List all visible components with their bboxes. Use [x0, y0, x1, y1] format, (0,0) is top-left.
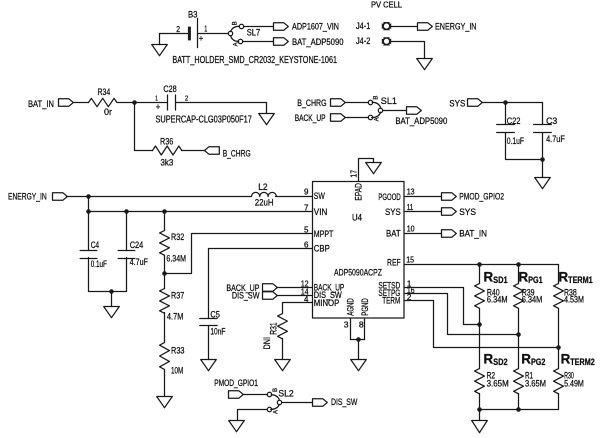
flag B_CHRG to SL1: [331, 99, 346, 106]
svg-text:SL7: SL7: [247, 27, 261, 38]
svg-text:2: 2: [176, 25, 180, 34]
svg-text:2: 2: [185, 96, 188, 103]
wire SETSD to divider: [405, 288, 480, 325]
svg-text:C28: C28: [163, 83, 176, 94]
wire MPPT pin to tap: [165, 234, 313, 274]
flag BAT_ADP5090 top: [274, 38, 289, 45]
resistor R40: [475, 284, 485, 309]
wire PGND stub: [364, 319, 366, 340]
svg-text:CBP: CBP: [314, 243, 330, 254]
svg-text:PGND: PGND: [359, 298, 370, 316]
wire RTERM1 top lead: [558, 265, 560, 284]
wire RTERM1 to RTERM2: [558, 309, 560, 369]
flag ADP1607_VIN: [274, 23, 289, 30]
wire SL2 throw A to ground: [238, 410, 267, 421]
svg-text:J4-2: J4-2: [356, 35, 370, 46]
svg-text:10: 10: [407, 224, 415, 233]
resistor R31: [278, 314, 288, 339]
svg-text:U4: U4: [352, 212, 362, 223]
wire BACK_UP flag to pin 12: [278, 287, 313, 289]
wire RPG2 bottom lead: [518, 394, 520, 410]
svg-text:R32: R32: [171, 231, 184, 242]
svg-text:7: 7: [304, 204, 309, 213]
wire VIN rail: [89, 211, 313, 213]
svg-text:SL1: SL1: [381, 95, 397, 106]
ground GND below divider: [472, 421, 488, 433]
svg-text:DIS_SW: DIS_SW: [232, 289, 260, 300]
switch SL1 throw A contact: [368, 115, 372, 119]
switch SL7 common contact: [228, 31, 232, 35]
svg-text:PMOD_GPIO1: PMOD_GPIO1: [214, 377, 258, 388]
ground GND below C4 C24: [104, 307, 120, 318]
svg-text:C22: C22: [507, 115, 521, 126]
op-amp U4 ADP5090ACPZ body: [313, 182, 405, 319]
svg-text:R31: R31: [267, 322, 278, 334]
flag BACK_UP to IC: [263, 284, 278, 291]
svg-text:3: 3: [344, 320, 349, 330]
svg-text:PV CELL: PV CELL: [371, 1, 403, 10]
svg-text:B_CHRG: B_CHRG: [297, 97, 326, 108]
ground GND at battery: [152, 45, 168, 56]
wire R33 to ground: [164, 370, 166, 397]
svg-text:L2: L2: [258, 181, 267, 192]
wire SL1 common to BAT_ADP5090 flag: [384, 110, 407, 112]
connector J4-1 pad: [382, 22, 392, 31]
switch SL2 common contact: [277, 400, 281, 404]
svg-text:MINOP: MINOP: [314, 297, 340, 308]
svg-text:B3: B3: [188, 9, 198, 19]
wire RSD1 to RSD2: [479, 309, 481, 369]
switch SL2 throw B contact: [267, 392, 271, 396]
resistor R1: [514, 369, 524, 394]
wire AGND stub: [350, 319, 352, 340]
wire battery negative to ground: [160, 33, 189, 35]
wire B_CHRG flag to SL1 throw B: [346, 102, 369, 104]
ground GND below SYS caps: [535, 178, 551, 189]
wire C24 top lead: [126, 212, 128, 251]
svg-text:REF: REF: [387, 256, 401, 267]
ground GND at J4-2: [417, 59, 433, 70]
ground GND below R31: [275, 360, 291, 371]
ground GND below C5: [201, 360, 217, 371]
wire REF rail: [405, 264, 559, 266]
wire RPG1 top lead: [518, 265, 520, 284]
wire L2 to SW pin: [276, 196, 313, 198]
battery B3 positive plate: [197, 18, 199, 47]
wire SL7 throw B to ADP1607_VIN flag: [244, 26, 274, 28]
svg-text:SL2: SL2: [278, 387, 293, 398]
flag BACK_UP to SL1: [331, 114, 346, 121]
wire R31 to ground: [282, 339, 284, 360]
node C4 C24 ground junction: [109, 289, 114, 294]
wire C3 top lead: [542, 103, 544, 125]
svg-text:3.65M: 3.65M: [487, 379, 509, 390]
svg-text:BAT_IN: BAT_IN: [459, 227, 487, 238]
wire RSD2 bottom lead: [479, 394, 481, 421]
svg-text:R36: R36: [160, 135, 173, 146]
node VIN at R32 column: [162, 209, 167, 214]
svg-text:0.1uF: 0.1uF: [507, 135, 524, 146]
node ENERGY_IN junction: [86, 194, 91, 199]
svg-text:17: 17: [350, 169, 359, 177]
resistor R37: [160, 289, 170, 314]
resistor R38: [554, 284, 564, 309]
svg-text:SYS: SYS: [459, 206, 476, 217]
svg-text:4.7uF: 4.7uF: [546, 133, 565, 144]
node VIN at C4 column: [86, 209, 91, 214]
svg-text:R37: R37: [171, 290, 184, 301]
svg-text:6: 6: [304, 240, 309, 249]
svg-text:5: 5: [304, 226, 309, 235]
svg-text:EPAD: EPAD: [353, 183, 364, 201]
flag B_CHRG output: [205, 147, 220, 154]
svg-text:BAT_ADP5090: BAT_ADP5090: [292, 36, 344, 47]
svg-text:A: A: [273, 410, 279, 414]
switch SL1 throw B contact: [368, 100, 372, 104]
svg-text:4.7uF: 4.7uF: [130, 256, 148, 267]
svg-text:11: 11: [407, 203, 414, 212]
wire RTERM2 bottom lead: [558, 394, 560, 410]
flag BAT_ADP5090 at SL1: [407, 107, 422, 114]
svg-text:10M: 10M: [171, 365, 183, 376]
svg-text:DIS_SW: DIS_SW: [331, 396, 358, 407]
svg-text:MPPT: MPPT: [314, 228, 334, 239]
wire C4 bottom lead: [89, 258, 127, 292]
wire C22 top lead: [505, 103, 507, 125]
svg-text:DNI: DNI: [261, 337, 272, 350]
capacitor C3 plates: [534, 125, 552, 133]
wire gnd pins to ground: [358, 340, 360, 360]
svg-text:8: 8: [359, 320, 364, 330]
svg-text:B_CHRG: B_CHRG: [223, 147, 251, 158]
svg-text:ADP5090ACPZ: ADP5090ACPZ: [334, 267, 382, 278]
switch SL7 throw A contact: [238, 39, 242, 43]
flag ENERGY_IN top right: [418, 23, 433, 30]
svg-text:R33: R33: [171, 344, 185, 355]
capacitor C22 plates: [497, 125, 515, 133]
svg-text:10nF: 10nF: [210, 325, 225, 336]
svg-text:0r: 0r: [104, 106, 112, 117]
svg-text:SYS: SYS: [449, 98, 465, 109]
svg-text:SYS: SYS: [385, 206, 401, 217]
node VIN at C24 column: [124, 209, 129, 214]
svg-text:B: B: [232, 21, 238, 25]
wire ground drop for battery: [159, 34, 161, 45]
flag SYS to caps: [468, 99, 483, 106]
wire C22 bottom lead: [506, 133, 543, 160]
wire R34 to C28 with node: [118, 102, 167, 104]
wire R36 to B_CHRG flag: [182, 150, 205, 152]
capacitor C5 plates: [200, 319, 217, 326]
svg-text:SUPERCAP-CLG03P050F17: SUPERCAP-CLG03P050F17: [156, 114, 253, 125]
wire SETPG to divider: [405, 294, 519, 335]
wire SYS flag to C3 column: [483, 102, 543, 104]
node AGND PGND junction: [356, 337, 361, 342]
svg-text:0.1uF: 0.1uF: [91, 258, 107, 269]
svg-text:3.65M: 3.65M: [525, 379, 546, 390]
wire ENERGY_IN down to VIN rail and C4: [88, 197, 90, 251]
svg-text:TERM: TERM: [382, 294, 400, 305]
svg-text:ADP1607_VIN: ADP1607_VIN: [292, 20, 339, 31]
wire RSD1 top lead: [479, 265, 481, 284]
node caps bottom junction: [540, 157, 545, 162]
wire DIS_SW flag to pin 14: [278, 295, 313, 297]
svg-text:PMOD_GPIO2: PMOD_GPIO2: [459, 191, 504, 202]
node REF at RSD1: [477, 262, 482, 267]
connector J4-2 pad: [382, 37, 392, 46]
wire AGND PGND join: [351, 339, 365, 341]
wire R37 to R33: [164, 313, 166, 343]
svg-text:5.49M: 5.49M: [564, 379, 584, 390]
svg-text:1: 1: [204, 24, 207, 33]
switch SL1 arc to throw A: [372, 112, 381, 117]
capacitor C24 plates: [118, 251, 135, 259]
svg-text:BAT_IN: BAT_IN: [28, 98, 54, 109]
switch SL7 throw B contact: [239, 24, 243, 28]
svg-text:VIN: VIN: [314, 206, 328, 217]
wire battery positive to SL7: [198, 33, 229, 35]
svg-text:3k3: 3k3: [161, 157, 174, 168]
flag PMOD_GPIO1: [229, 391, 244, 398]
svg-text:ENERGY_IN: ENERGY_IN: [435, 20, 477, 31]
wire J4-2 to ground: [392, 42, 425, 59]
ground GND below R33: [157, 397, 173, 408]
svg-text:13: 13: [407, 188, 415, 197]
flag DIS_SW to IC: [263, 292, 278, 299]
svg-text:A: A: [375, 117, 381, 121]
svg-text:6.34M: 6.34M: [522, 294, 543, 305]
wire CBP pin to C5: [209, 249, 313, 319]
battery B3 negative plate: [188, 27, 191, 41]
resistor R32: [160, 231, 170, 256]
wire divider bottom rail: [480, 409, 559, 411]
node REF at RPG1: [516, 262, 521, 267]
wire PGOOD to flag: [405, 196, 442, 198]
ground GND at SL2: [229, 421, 245, 432]
svg-text:J4-1: J4-1: [356, 20, 370, 31]
ground GND at C28: [259, 114, 275, 125]
switch SL2 arc to throw B: [271, 395, 279, 401]
flag ENERGY_IN main: [53, 193, 68, 200]
switch SL2 throw A contact: [267, 407, 271, 411]
node TERM junction: [556, 345, 561, 350]
svg-text:6.34M: 6.34M: [487, 294, 508, 305]
svg-text:BAT_ADP5090: BAT_ADP5090: [395, 115, 447, 126]
svg-text:C3: C3: [546, 115, 557, 126]
node BAT_IN junction: [132, 100, 137, 105]
svg-text:+: +: [156, 102, 161, 113]
svg-text:C4: C4: [91, 239, 99, 250]
inductor L2: [252, 192, 277, 196]
flag DIS_SW output: [313, 399, 328, 406]
wire SL2 common to DIS_SW flag: [283, 402, 313, 404]
wire C3 bottom lead: [542, 133, 544, 178]
capacitor C4 plates: [80, 251, 97, 259]
svg-text:9: 9: [304, 188, 309, 197]
resistor R36: [153, 146, 182, 155]
svg-text:22uH: 22uH: [255, 196, 274, 207]
node divider bottom at RPG2: [516, 407, 521, 412]
wire BACK_UP flag to SL1 throw A: [346, 117, 369, 119]
ground GND below U4: [351, 360, 367, 371]
flag SYS right: [442, 208, 457, 215]
flag PMOD_GPIO2: [442, 193, 457, 200]
wire BAT pin to flag: [405, 233, 442, 235]
wire R32 to R37: [164, 256, 166, 289]
svg-text:R34: R34: [98, 86, 111, 97]
resistor R33: [160, 343, 170, 370]
wire SYS pin to flag: [405, 211, 442, 213]
wire RPG1 to RPG2: [518, 309, 520, 369]
switch SL2 arc to throw A: [271, 404, 280, 409]
flag BAT_IN right: [442, 230, 457, 237]
svg-text:C5: C5: [210, 308, 220, 319]
wire caps junction to ground: [111, 292, 113, 307]
wire J4-1 to ENERGY_IN flag: [392, 26, 418, 28]
svg-text:B: B: [374, 96, 380, 100]
node SETPG junction: [516, 332, 521, 337]
svg-text:4: 4: [304, 295, 309, 304]
svg-text:A: A: [234, 42, 240, 46]
svg-text:BATT_HOLDER_SMD_CR2032_KEYSTON: BATT_HOLDER_SMD_CR2032_KEYSTONE-1061: [172, 55, 337, 66]
svg-text:ENERGY_IN: ENERGY_IN: [8, 190, 47, 201]
wire PMOD_GPIO1 flag to SL2 throw B: [244, 394, 268, 396]
svg-text:PGOOD: PGOOD: [378, 191, 400, 202]
node SYS at C22: [503, 100, 508, 105]
node divider bottom at RSD2: [477, 407, 482, 412]
resistor R39: [514, 284, 524, 309]
wire SL7 throw A to BAT_ADP5090 flag: [243, 41, 274, 43]
resistor R2: [475, 369, 485, 394]
wire C5 to ground: [208, 327, 210, 360]
capacitor C28 plates: [168, 95, 176, 110]
switch SL7 arc to throw B: [231, 26, 240, 32]
wire BAT_IN node down to R36: [135, 103, 153, 151]
switch SL1 common contact: [378, 108, 382, 112]
svg-text:4.53M: 4.53M: [564, 294, 584, 305]
svg-text:+: +: [199, 33, 204, 44]
wire C28 to ground: [176, 103, 267, 114]
node SETSD junction: [477, 322, 482, 327]
svg-text:AGND: AGND: [345, 298, 356, 316]
svg-text:C24: C24: [130, 239, 144, 250]
wire MINOP pin to R31: [283, 303, 313, 314]
switch SL7 arc to throw A: [231, 36, 239, 42]
svg-text:15: 15: [406, 255, 414, 264]
svg-text:4.7M: 4.7M: [167, 310, 184, 321]
svg-text:BACK_UP: BACK_UP: [295, 112, 326, 123]
flag BAT_IN left: [59, 99, 74, 106]
svg-text:SW: SW: [314, 190, 325, 201]
wire BAT_IN flag to R34: [74, 102, 89, 104]
svg-text:6.34M: 6.34M: [166, 253, 186, 264]
wire EPAD to ground: [359, 159, 374, 182]
wire ENERGY_IN to L2: [67, 196, 251, 198]
ground GND at EPAD: [366, 163, 382, 174]
wire TERM to divider: [405, 301, 559, 348]
svg-text:BAT: BAT: [386, 228, 401, 239]
resistor R30: [554, 369, 564, 394]
wire VIN to R32: [164, 212, 166, 231]
resistor R34: [89, 98, 117, 106]
node MPPT tap junction: [162, 271, 167, 276]
switch SL1 arc to throw B: [372, 102, 381, 108]
